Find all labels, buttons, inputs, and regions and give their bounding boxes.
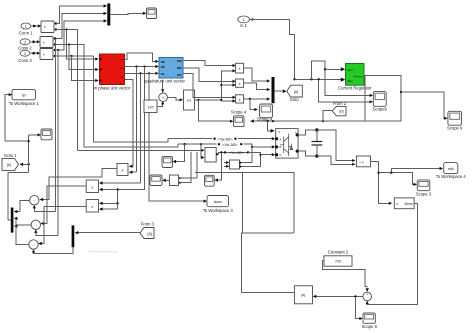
capacitor DC link bbox=[312, 130, 323, 156]
wire trunk to bridge B row bbox=[84, 45, 178, 147]
node junction feed P2 P3 bbox=[116, 188, 118, 209]
wire branch to ndb bbox=[391, 167, 443, 173]
wire trunk to mid V measure bbox=[77, 30, 79, 151]
svg-text:x: x bbox=[239, 67, 241, 71]
block product P3 bbox=[86, 200, 98, 213]
wire branch to Scope4 bbox=[198, 100, 233, 123]
wire From3 to M2 bbox=[75, 231, 140, 234]
svg-text:uc: uc bbox=[161, 72, 165, 76]
wire branch down to junction net bbox=[118, 67, 145, 190]
scope Scope6 bbox=[373, 91, 388, 111]
svg-text:Constant 2: Constant 2 bbox=[328, 250, 349, 255]
wire in1 long down bbox=[250, 18, 295, 78]
svg-text:To Workspace 4: To Workspace 4 bbox=[436, 174, 467, 179]
wire into second scope bbox=[214, 151, 222, 182]
port Conn 2 bbox=[18, 39, 32, 51]
wire X2 to Mux2 bbox=[244, 83, 271, 91]
block voltage measurement VM3 bbox=[40, 49, 56, 60]
wire VDC out down to Mean bbox=[371, 161, 393, 205]
svg-text:Scope 3: Scope 3 bbox=[416, 191, 432, 196]
wire blue wc to X3 bbox=[183, 74, 236, 99]
svg-text:Scope 8: Scope 8 bbox=[362, 324, 378, 329]
wire N2 left stubs bbox=[224, 161, 229, 168]
wire S2 to M1 bbox=[14, 224, 31, 227]
svg-text:Scope 9: Scope 9 bbox=[447, 126, 463, 131]
block product X3 bbox=[236, 95, 244, 103]
svg-text:[b]: [b] bbox=[7, 163, 11, 167]
block To Workspace 4 ndb bbox=[436, 163, 467, 180]
wire P1 inputs bbox=[129, 165, 137, 174]
wire branch to Scope6 input2 bbox=[319, 79, 373, 103]
svg-text:To Workspace 1: To Workspace 1 bbox=[9, 101, 40, 106]
wire trunk current a down bbox=[54, 37, 56, 211]
svg-text:x: x bbox=[121, 169, 123, 173]
wire X3 to Mux2 bbox=[244, 97, 271, 100]
wire VM1 to Mux1 bbox=[56, 4, 107, 23]
wire trunk current b down bbox=[57, 49, 59, 236]
svg-text:Goto 1: Goto 1 bbox=[4, 153, 17, 158]
wire sum2 to PI2 bbox=[313, 295, 363, 298]
wire blue wb to X2 bbox=[183, 68, 236, 83]
svg-text:700: 700 bbox=[335, 260, 341, 264]
scope Scope9 bbox=[447, 111, 463, 130]
wire N to ScopeM bbox=[162, 179, 169, 182]
wire branch down to P2 top bbox=[140, 73, 142, 183]
wire PLL sum to PI1 bbox=[167, 97, 183, 101]
svg-text:Conn 2: Conn 2 bbox=[18, 45, 32, 50]
subsystem in phase unit vector (red) bbox=[94, 54, 131, 91]
faint annotation line bbox=[89, 251, 119, 253]
wire N out up 1 bbox=[180, 152, 197, 178]
wire VM1 to red in1 bbox=[56, 28, 99, 60]
svg-text:1: 1 bbox=[243, 18, 245, 22]
wire P2 out to S2 bbox=[41, 186, 87, 225]
block PI2 bbox=[294, 286, 312, 304]
wire trunk to bridge A row bbox=[94, 56, 168, 142]
wire branch to Scope8 bbox=[355, 296, 362, 320]
svg-text:<Vb-3Ø>: <Vb-3Ø> bbox=[222, 143, 238, 147]
wire S2 bottom input bbox=[34, 230, 58, 236]
wire S3 bottom input loop bbox=[32, 247, 73, 253]
wire P2 inputs bbox=[99, 181, 141, 191]
svg-text:wb: wb bbox=[176, 66, 182, 70]
wire From2 down to pulses line bbox=[322, 111, 333, 123]
svg-text:x: x bbox=[91, 205, 93, 209]
wire P3 inputs bbox=[99, 202, 118, 211]
port Conn 1 bbox=[19, 23, 33, 36]
wire branch down to P1 bottom bbox=[136, 67, 138, 173]
wire Constant2 to sum2 top bbox=[323, 260, 369, 292]
svg-text:Mean: Mean bbox=[405, 202, 413, 206]
scope Scope 3 bbox=[416, 180, 432, 196]
wire Mux1 to Scope1 bbox=[110, 12, 146, 15]
wire Mean to sum2 bottom bbox=[366, 203, 418, 304]
wire to Goto1 bbox=[20, 163, 30, 166]
svg-text:<Vc-3Ø>: <Vc-3Ø> bbox=[229, 151, 245, 155]
svg-text:<Va-3Ø>: <Va-3Ø> bbox=[217, 137, 233, 141]
svg-text:Isam: Isam bbox=[214, 200, 222, 204]
port in 1 oval bbox=[238, 16, 250, 28]
block VDC voltage measurement bbox=[356, 156, 370, 167]
svg-text:Scope6: Scope6 bbox=[373, 107, 388, 112]
block N current measure bbox=[170, 175, 182, 186]
subsystem quadrature unit vector (blue) bbox=[144, 58, 185, 84]
svg-text:Pulses: Pulses bbox=[353, 74, 363, 78]
wire 197 to PLL sum bottom bbox=[157, 101, 164, 106]
block universal bridge IGBT bbox=[275, 129, 299, 159]
sum S3 bbox=[29, 240, 38, 249]
sum S2 bbox=[31, 220, 40, 229]
from tag From2 bbox=[332, 101, 346, 116]
svg-text:To Workspace 3: To Workspace 3 bbox=[203, 208, 234, 213]
block To Workspace 1 Isf bbox=[9, 89, 40, 106]
sum S1 bbox=[30, 196, 39, 205]
block N2 measure bbox=[230, 160, 242, 169]
scope Scope mid bbox=[257, 104, 273, 122]
sum sum2 DC regulator bbox=[363, 292, 372, 302]
from tag From 3 bbox=[140, 222, 155, 239]
svg-text:wa: wa bbox=[176, 59, 182, 63]
wire gate branch to bridge bbox=[267, 120, 275, 133]
scope Scope small second bbox=[205, 175, 215, 186]
scope Scope2 bbox=[41, 129, 52, 140]
svg-text:··: ·· bbox=[33, 198, 36, 203]
svg-text:[A]: [A] bbox=[294, 90, 298, 94]
scope Scope7 bbox=[162, 156, 173, 167]
wire phase C row from measure block to bridge C and N2 bbox=[216, 151, 275, 166]
svg-text:1: 1 bbox=[25, 25, 27, 29]
wire blue wa to X1 bbox=[183, 61, 236, 67]
wire Conn1 to VM1 bbox=[31, 24, 42, 27]
svg-text:ndb: ndb bbox=[448, 167, 454, 171]
svg-text:Scope 4: Scope 4 bbox=[231, 110, 247, 115]
wire cap top to VDC measure bbox=[317, 130, 356, 162]
svg-text:ub: ub bbox=[161, 65, 165, 69]
block product P1 bbox=[117, 164, 128, 176]
svg-text:va: va bbox=[120, 58, 124, 62]
subsystem Current Regulator (green) bbox=[338, 64, 372, 91]
svg-text:in 1: in 1 bbox=[240, 23, 247, 28]
goto tag Goto 1 bbox=[2, 153, 19, 171]
svg-text:PI: PI bbox=[187, 98, 191, 103]
wire VM2 to Mux1 bbox=[55, 12, 107, 39]
svg-text:ua: ua bbox=[161, 60, 165, 64]
wire PI1 out to product bottoms bbox=[195, 69, 236, 102]
svg-text:x: x bbox=[91, 185, 93, 189]
svg-text:quadrature unit vector: quadrature unit vector bbox=[144, 79, 185, 84]
scope Scope 8 bbox=[362, 313, 378, 329]
svg-text:wc: wc bbox=[176, 73, 182, 77]
wire N out up 2 bbox=[180, 152, 191, 183]
wire X3 branch to Scope mid bbox=[250, 99, 258, 111]
svg-text:[A]: [A] bbox=[147, 232, 151, 236]
mux Mux1 top bbox=[107, 3, 110, 25]
svg-text:Current Regulator: Current Regulator bbox=[338, 86, 372, 91]
wire Conn3 to VM3 bbox=[30, 52, 40, 55]
wire bridge minus to DC cap bbox=[298, 151, 318, 158]
port Conn 3 bbox=[18, 50, 32, 63]
svg-text:in phase unit vector: in phase unit vector bbox=[94, 86, 131, 91]
wire VM2 to red in2 bbox=[55, 43, 99, 71]
svg-text:197: 197 bbox=[147, 105, 154, 109]
block voltage measurement VM2 bbox=[40, 37, 56, 48]
block product X1 bbox=[236, 63, 244, 73]
block voltage measurement VM1 bbox=[41, 21, 57, 33]
wire X1 to Mux2 bbox=[244, 68, 271, 82]
wire rectangle loop upper bbox=[195, 173, 294, 234]
block PI1 bbox=[184, 90, 195, 110]
svg-text:Conn 3: Conn 3 bbox=[18, 58, 32, 63]
svg-text:u: u bbox=[397, 202, 399, 206]
wire PI2 out loop left-up bbox=[241, 233, 294, 292]
wire bridge plus to DC cap bbox=[298, 128, 318, 135]
svg-text:+ v: + v bbox=[359, 161, 364, 165]
wire Conn2 to VM2 bbox=[30, 40, 40, 43]
goto tag A bbox=[287, 85, 303, 102]
wire left net to Isf bbox=[5, 93, 12, 141]
wire red out3 to blue uc with branches bbox=[125, 72, 159, 75]
svg-text:-: - bbox=[296, 153, 297, 157]
mux M2 bbox=[72, 225, 75, 247]
block product X2 bbox=[236, 79, 244, 87]
svg-text:vb: vb bbox=[120, 66, 124, 70]
wire S1 bottom input bbox=[33, 205, 56, 212]
wire green Pulses loop bbox=[250, 75, 402, 123]
block Constant 2 bbox=[324, 250, 352, 267]
wire VM3 to red in3 bbox=[55, 55, 99, 82]
scope Scope 4 bbox=[231, 110, 247, 127]
wire Pulses branch to Scope9 bbox=[401, 92, 448, 120]
block product P2 bbox=[86, 180, 98, 193]
wire VM3 to Mux1 bbox=[55, 19, 107, 50]
wire S3 to M1 bbox=[14, 217, 29, 245]
wire top input to PLL sum bbox=[161, 80, 164, 93]
svg-text:Iabc: Iabc bbox=[347, 79, 353, 83]
svg-text:x: x bbox=[239, 98, 241, 102]
wire into Scope7 bbox=[173, 143, 186, 163]
block frequency constant 197 bbox=[144, 100, 157, 113]
wire branch to Scope3 bbox=[379, 172, 417, 186]
block To Workspace 3 Isam bbox=[203, 196, 234, 214]
svg-text:vc: vc bbox=[120, 75, 124, 79]
svg-text:2: 2 bbox=[24, 40, 26, 44]
wire M1 out up bbox=[8, 219, 11, 221]
wire red out1 over-jog to blue ua bbox=[125, 53, 159, 63]
wire red out2 to blue ub with branches bbox=[125, 65, 159, 68]
svg-text:Iabc*: Iabc* bbox=[347, 68, 355, 72]
wire S1 to M1 bbox=[14, 200, 30, 213]
svg-text:Goto: Goto bbox=[290, 97, 300, 102]
mux Mux2 bbox=[272, 77, 275, 103]
svg-text:x: x bbox=[239, 82, 241, 86]
block V measure mid bbox=[78, 143, 219, 162]
wire P3 out to S3 bbox=[38, 207, 86, 246]
svg-text:+: + bbox=[366, 293, 368, 297]
wire to green Iabc* input bbox=[311, 61, 373, 97]
svg-text:[b]: [b] bbox=[340, 110, 344, 114]
mux M1 left bbox=[11, 208, 14, 233]
wire phase B row to bridge B and N2 bbox=[178, 143, 275, 163]
wire P1 out to S1 bbox=[40, 169, 118, 202]
wire Mux2 to Goto A bbox=[275, 89, 287, 93]
scope Scope1 bbox=[147, 8, 157, 19]
svg-text:3: 3 bbox=[24, 52, 26, 56]
wire left net vertical bbox=[5, 135, 30, 220]
svg-text:-: - bbox=[367, 298, 368, 302]
svg-text:··: ·· bbox=[32, 242, 35, 247]
svg-text:B: B bbox=[279, 145, 281, 149]
scope ScopeM small bbox=[150, 175, 162, 186]
svg-text:PI: PI bbox=[301, 293, 305, 298]
wire red out4 down to P1 top bbox=[125, 80, 134, 167]
svg-text:From 2: From 2 bbox=[333, 101, 347, 106]
wire to Scope2 bbox=[29, 133, 41, 136]
sum PLL divider circle bbox=[159, 93, 168, 102]
wire cap bottom to VDC measure bbox=[317, 156, 356, 166]
wire phase A row to bridge bbox=[168, 137, 275, 141]
svg-text:Conn 1: Conn 1 bbox=[19, 31, 33, 36]
wire vertical to Isam feed bbox=[149, 73, 207, 202]
svg-text:From 3: From 3 bbox=[141, 222, 155, 227]
block Mean bbox=[394, 198, 414, 209]
wire to green Iabc input bbox=[293, 78, 345, 82]
svg-text:··: ·· bbox=[34, 223, 37, 228]
